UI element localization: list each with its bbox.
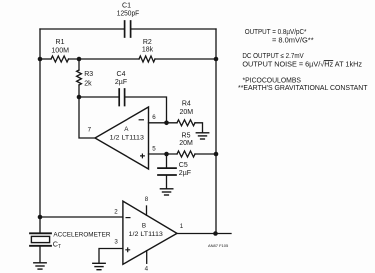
wire R1-R2 middle segment: [69, 58, 140, 60]
capacitor C5: [158, 168, 176, 175]
wire R2 right lead: [155, 58, 216, 60]
svg-text:6: 6: [152, 114, 156, 121]
node R5 right / output bus: [214, 152, 219, 157]
accelerometer transducer CT body box: [31, 236, 49, 242]
svg-text:20M: 20M: [179, 140, 193, 147]
capacitor C4: [119, 89, 124, 106]
wire op-amp A output pin 7 to feedback node: [79, 97, 95, 138]
wire left vertical bus: [39, 29, 41, 233]
wire top (C1 branch) right segment: [132, 28, 216, 30]
op-amp A inverting input minus sign: [139, 119, 144, 121]
ground (R4): [196, 133, 208, 139]
svg-text:1250pF: 1250pF: [117, 11, 139, 18]
svg-text:8: 8: [145, 196, 149, 203]
resistor R2: [139, 56, 155, 62]
svg-text:R2: R2: [143, 39, 152, 46]
wire pin 6 lead: [149, 122, 178, 124]
ground (accelerometer): [34, 263, 46, 269]
svg-text:2k: 2k: [84, 80, 92, 87]
capacitor C1: [125, 21, 131, 37]
wire C5 top lead: [166, 154, 168, 167]
svg-text:3: 3: [114, 239, 118, 246]
svg-text:OUTPUT NOISE = 6µV/√Hz AT 1kHz: OUTPUT NOISE = 6µV/√Hz AT 1kHz: [242, 61, 362, 69]
svg-text:100M: 100M: [51, 47, 69, 54]
wire op-amp B output pin 1: [177, 233, 231, 235]
node pin 6 / C4 / R4: [164, 121, 169, 126]
resistor R1: [51, 56, 69, 62]
overline of sqrt Hz: [324, 60, 333, 62]
svg-text:2µF: 2µF: [179, 170, 191, 177]
svg-text:7: 7: [88, 126, 92, 133]
svg-text:R4: R4: [182, 101, 191, 108]
svg-text:2µF: 2µF: [115, 79, 127, 86]
svg-text:= 8.0mV/G**: = 8.0mV/G**: [272, 37, 314, 44]
svg-text:1: 1: [180, 223, 184, 230]
wire pin 5 lead: [149, 153, 178, 155]
wire R5 right lead: [195, 153, 216, 155]
wire pin 4 stem: [146, 251, 148, 264]
op-amp U1B triangle: [123, 201, 177, 264]
ground (C5): [160, 189, 172, 195]
resistor R3: [77, 70, 82, 85]
op-amp B inverting input minus sign: [126, 217, 131, 219]
node junction dots: [38, 57, 219, 236]
svg-text:OUTPUT = 0.8µV/pC*: OUTPUT = 0.8µV/pC*: [245, 29, 307, 36]
wire R1 left lead: [40, 58, 51, 60]
svg-text:C5: C5: [179, 162, 188, 169]
svg-text:R3: R3: [84, 71, 93, 78]
wire R3 top lead: [78, 59, 80, 70]
op-amp B non-inverting input plus sign: [125, 247, 130, 252]
node R1 left / input bus: [38, 57, 43, 62]
wire C4 left lead: [79, 96, 118, 98]
wire top (C1 branch) left segment: [40, 28, 124, 30]
node accelerometer / pin 2: [38, 215, 43, 220]
resistor R4: [177, 120, 195, 126]
accelerometer transducer CT top plate: [30, 232, 51, 234]
op-amp U1A triangle: [95, 107, 149, 169]
svg-text:20M: 20M: [179, 109, 193, 116]
wire pin 2 lead from accelerometer node: [40, 216, 123, 218]
svg-text:CT: CT: [53, 239, 61, 250]
node pin 5 / C5 / R5: [164, 152, 169, 157]
node R2 right / output bus: [214, 57, 219, 62]
wire pin 8 stem: [146, 206, 148, 215]
svg-text:DC OUTPUT ≤ 2.7mV: DC OUTPUT ≤ 2.7mV: [242, 53, 304, 60]
svg-text:B: B: [142, 222, 146, 229]
svg-text:18k: 18k: [142, 47, 154, 54]
svg-text:2: 2: [114, 208, 118, 215]
wire right vertical bus (output node): [215, 29, 217, 234]
svg-text:*PICOCOULOMBS: *PICOCOULOMBS: [243, 78, 302, 85]
wire accelerometer bottom lead: [39, 247, 41, 263]
ground (pin 3): [93, 263, 105, 269]
svg-text:1/2 LT1113: 1/2 LT1113: [129, 231, 164, 238]
svg-text:**EARTH'S GRAVITATIONAL CONSTA: **EARTH'S GRAVITATIONAL CONSTANT: [238, 85, 368, 92]
op-amp A non-inverting input plus sign: [140, 154, 145, 159]
node R3/C4/pin7 junction: [77, 95, 82, 100]
wire C4 right lead to pin 6: [126, 97, 167, 123]
svg-text:1/2 LT1113: 1/2 LT1113: [110, 134, 145, 141]
svg-text:ACCELEROMETER: ACCELEROMETER: [53, 232, 110, 239]
wire R3 bottom lead: [78, 85, 80, 97]
svg-text:4: 4: [145, 266, 149, 273]
svg-text:5: 5: [152, 146, 156, 153]
svg-text:AN87 F105: AN87 F105: [208, 243, 229, 248]
wire R4 right lead to ground: [195, 123, 203, 133]
svg-text:A: A: [124, 126, 129, 133]
wire pin 3 lead to ground: [99, 249, 123, 264]
node output junction: [213, 231, 218, 236]
node R1/R2/R3 junction: [77, 57, 82, 62]
svg-text:R1: R1: [56, 39, 65, 46]
accelerometer transducer CT bottom plate: [30, 245, 51, 247]
resistor R5: [177, 151, 195, 157]
wire C5 bottom lead: [166, 176, 168, 189]
svg-text:C4: C4: [117, 71, 126, 78]
svg-text:R5: R5: [182, 132, 191, 139]
svg-text:C1: C1: [122, 3, 131, 10]
